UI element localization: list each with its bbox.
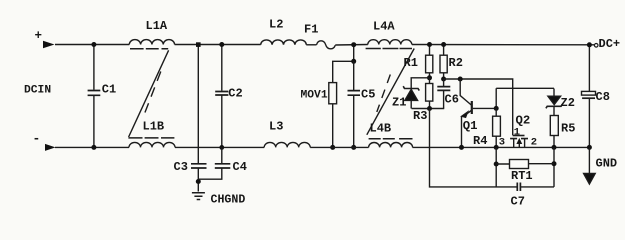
junction dot R2 top bbox=[441, 42, 446, 47]
thermistor RT1 bbox=[496, 160, 554, 183]
svg-text:R2: R2 bbox=[449, 56, 463, 70]
node DC+ terminal bbox=[594, 44, 598, 48]
junction dot R1 bottom / Z1 bbox=[427, 75, 432, 80]
junction dot R2 bottom node bbox=[441, 77, 446, 82]
wire top rail L1A to L2 bbox=[175, 44, 261, 46]
junction dot C3/C4 bottom bbox=[196, 179, 201, 184]
capacitor C2 bbox=[215, 45, 243, 148]
capacitor C8 bbox=[582, 45, 610, 148]
svg-text:Q1: Q1 bbox=[463, 119, 478, 133]
wire bottom rail L3 to L4B bbox=[310, 146, 368, 148]
wire R4 top / Z2 link bbox=[496, 88, 554, 108]
input arrow bottom bbox=[45, 144, 56, 151]
core diagonal dashed L4A/L4B bbox=[377, 75, 391, 113]
svg-text:L1B: L1B bbox=[143, 120, 165, 134]
junction dot C1 top bbox=[91, 42, 96, 47]
svg-text:MOV1: MOV1 bbox=[301, 90, 328, 102]
inductor L2 bbox=[261, 18, 307, 45]
zener Z2 bbox=[546, 89, 575, 116]
svg-text:1: 1 bbox=[514, 127, 520, 139]
junction dot C5 tap rail bbox=[351, 42, 356, 47]
junction dot C1 bottom bbox=[91, 145, 96, 150]
resistor R4 bbox=[473, 108, 500, 148]
wire RT1 left vertical bbox=[495, 147, 497, 187]
svg-text:-: - bbox=[33, 131, 41, 146]
svg-text:Z2: Z2 bbox=[561, 96, 575, 110]
wire MOV1/C5 tap bbox=[333, 45, 354, 83]
wire Z1/R3 node bbox=[412, 108, 445, 110]
inductor L1B bbox=[128, 120, 175, 148]
varistor MOV1 bbox=[301, 83, 337, 148]
junction dot Q1 base / R4 bbox=[494, 106, 499, 111]
svg-text:L3: L3 bbox=[269, 120, 283, 134]
svg-text:C6: C6 bbox=[445, 93, 459, 107]
svg-text:C2: C2 bbox=[228, 87, 242, 101]
resistor R5 bbox=[550, 116, 575, 148]
junction dot C5 bottom bbox=[351, 145, 356, 150]
core diagonal dashed L1A/L1B bbox=[144, 72, 161, 116]
svg-text:2: 2 bbox=[531, 137, 537, 149]
inductor L4A bbox=[366, 20, 412, 49]
junction dot Q1 emitter bottom bbox=[459, 145, 464, 150]
svg-text:+: + bbox=[35, 29, 43, 43]
svg-text:R5: R5 bbox=[561, 122, 575, 136]
wire top rail F1 to L4A bbox=[335, 44, 368, 47]
junction dot C8 bottom / GND bbox=[587, 145, 592, 150]
capacitor C1 bbox=[88, 45, 117, 148]
wire top rail L2 to F1 bbox=[306, 44, 316, 46]
wire bottom rail l1b-l3 bbox=[175, 146, 264, 148]
inductor L4B bbox=[369, 122, 413, 148]
junction dot C3 top bbox=[196, 42, 201, 47]
svg-text:R4: R4 bbox=[473, 134, 487, 148]
capacitor C5 bbox=[348, 61, 376, 147]
wire bottom rail L4B to GND bbox=[413, 146, 590, 148]
svg-text:3: 3 bbox=[499, 137, 505, 149]
svg-text:L4A: L4A bbox=[373, 20, 395, 34]
wire top rail L4A to DC+ bbox=[412, 44, 594, 46]
svg-text:F1: F1 bbox=[304, 23, 318, 37]
wire R2 node to Q2 gate bbox=[444, 79, 513, 135]
svg-text:L1A: L1A bbox=[146, 19, 168, 33]
svg-text:GND: GND bbox=[596, 157, 618, 171]
mosfet Q2 bbox=[499, 113, 537, 148]
inductor L3 bbox=[264, 120, 310, 148]
junction dot C8 top bbox=[587, 42, 592, 47]
wire R3 node down to C7 bbox=[430, 109, 518, 187]
junction dot R5 bottom bbox=[552, 145, 557, 150]
core diagonal L1A/L1B bbox=[129, 50, 169, 137]
resistor R3 bbox=[413, 78, 433, 123]
svg-text:C5: C5 bbox=[361, 88, 375, 102]
input arrow top bbox=[43, 41, 55, 48]
svg-text:R1: R1 bbox=[404, 56, 418, 70]
svg-text:CHGND: CHGND bbox=[211, 194, 246, 207]
svg-text:DC+: DC+ bbox=[599, 37, 621, 51]
svg-text:L4B: L4B bbox=[370, 122, 392, 136]
zener Z1 bbox=[392, 78, 430, 110]
svg-text:C4: C4 bbox=[233, 160, 247, 174]
svg-text:Z1: Z1 bbox=[392, 96, 406, 110]
junction dot RT1 left lead bbox=[494, 162, 499, 167]
wire bottom rail left bbox=[55, 146, 129, 148]
junction dot R3 bottom node bbox=[427, 106, 432, 111]
junction dot Q1 collector tap bbox=[458, 77, 463, 82]
svg-text:C3: C3 bbox=[174, 160, 188, 174]
svg-text:DCIN: DCIN bbox=[24, 85, 51, 97]
capacitor C7 bbox=[511, 183, 555, 209]
chassis ground symbol bbox=[192, 193, 205, 200]
wire RT1 right vertical bbox=[553, 147, 555, 187]
inductor L1A bbox=[129, 19, 174, 49]
svg-text:C8: C8 bbox=[596, 90, 610, 104]
svg-text:C1: C1 bbox=[102, 83, 116, 97]
junction dot MOV1/C5 bbox=[351, 59, 356, 64]
junction dot C2/C4 at bottom rail bbox=[219, 145, 224, 150]
transistor Q1 bbox=[460, 79, 496, 147]
junction dot MOV1 bottom bbox=[330, 145, 335, 150]
svg-text:Q2: Q2 bbox=[516, 113, 531, 127]
junction dot RT1 right lead bbox=[552, 161, 557, 166]
ground GND arrow bbox=[584, 147, 596, 184]
svg-text:L2: L2 bbox=[269, 18, 283, 32]
capacitor C3 (top rail to chassis gnd) bbox=[174, 45, 207, 192]
svg-text:C7: C7 bbox=[511, 195, 525, 209]
svg-text:RT1: RT1 bbox=[511, 169, 533, 183]
resistor R2 bbox=[440, 45, 463, 80]
resistor R1 bbox=[404, 45, 433, 78]
fuse F1 bbox=[304, 23, 335, 49]
capacitor C4 (bottom rail to chassis gnd) bbox=[198, 147, 247, 179]
core diagonal L4A/L4B bbox=[367, 49, 414, 135]
svg-text:R3: R3 bbox=[413, 109, 427, 123]
junction dot C2 top bbox=[219, 42, 224, 47]
junction dot R4 bottom bbox=[494, 145, 499, 150]
junction dot R1 top bbox=[427, 42, 432, 47]
capacitor C6 bbox=[437, 79, 459, 109]
wire top rail left bbox=[55, 44, 129, 46]
